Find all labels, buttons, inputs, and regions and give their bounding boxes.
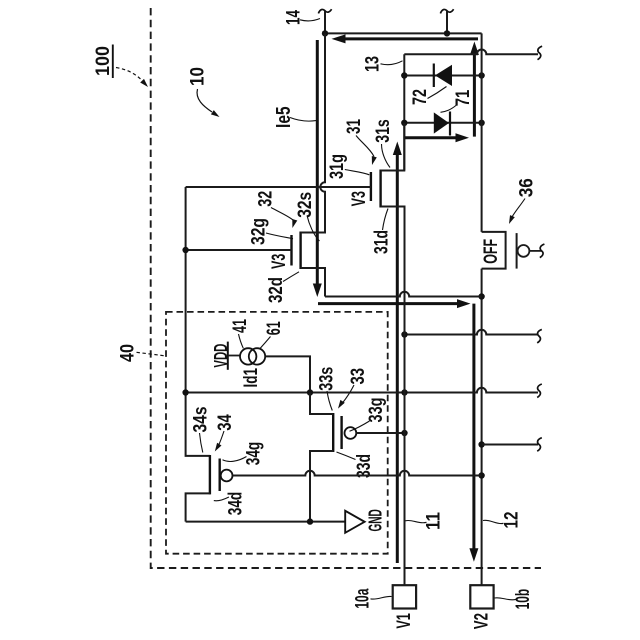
- node dot at (447,33.4): [444, 30, 450, 36]
- svg-text:31: 31: [343, 119, 365, 134]
- label 31d: [371, 209, 393, 255]
- svg-text:71: 71: [452, 90, 474, 107]
- node dot (404.5,433): [401, 430, 407, 436]
- channel bar 34: [209, 455, 211, 494]
- svg-text:Id1: Id1: [241, 368, 262, 388]
- label 34d: [214, 492, 247, 516]
- wire 32 gate lead: [186, 249, 292, 251]
- node dot (404.3,122.8): [401, 120, 407, 126]
- wire from drain 32 to rail 12 (hops line 11): [325, 292, 482, 297]
- wire stub up to break at x=447: [446, 11, 448, 33]
- label 11: [406, 512, 445, 530]
- svg-text:34d: 34d: [225, 492, 247, 516]
- svg-text:31s: 31s: [372, 119, 394, 143]
- svg-text:V3: V3: [268, 254, 290, 269]
- gate lead 34 to rail 12 (hops 33 drain wire and line 11): [233, 471, 482, 476]
- wire 54 from diode rail top to break (hops rail 12): [404, 50, 538, 55]
- bold current arrow Ie5 bottom segment (rightwards): [318, 299, 471, 308]
- gate bar 34: [218, 459, 220, 492]
- break symbol right of wire 334.5: [537, 329, 542, 343]
- drain lead 31 (into line 11, hops wire 296.5): [381, 207, 405, 297]
- node dot (310,392.5): [307, 389, 313, 395]
- node dot (481.6,444.5): [478, 441, 484, 447]
- svg-text:34g: 34g: [243, 442, 265, 466]
- svg-text:32: 32: [255, 191, 277, 207]
- switch 36 lead: [529, 250, 541, 252]
- drain lead 34: [186, 493, 210, 521]
- break symbol right of wire 392.5: [537, 384, 542, 398]
- svg-text:32g: 32g: [248, 218, 270, 245]
- bold current arrow Ie5 left segment (downwards): [313, 40, 322, 297]
- svg-text:31d: 31d: [371, 230, 393, 254]
- terminal box V1 (10a): [393, 585, 416, 628]
- svg-text:14: 14: [283, 10, 305, 25]
- bold current arrow Ie5 top segment (leftwards): [332, 34, 479, 43]
- channel bar 32: [299, 232, 301, 270]
- diode 72 (pointing left): [434, 64, 452, 88]
- wire stub up to break at x=325: [324, 11, 326, 33]
- break symbol right of wire 444.5: [537, 438, 542, 452]
- svg-text:33: 33: [347, 368, 369, 385]
- label 32g: [248, 218, 294, 245]
- label 31: [343, 119, 377, 165]
- label 41: [229, 319, 251, 348]
- gate lead 33 to line 11: [356, 432, 404, 434]
- switch 36 circle: [518, 245, 530, 257]
- svg-text:10a: 10a: [352, 589, 374, 609]
- node dot (481.6,296.5): [478, 293, 484, 299]
- bold current arrow middle segment under diodes (rightwards): [405, 133, 470, 142]
- node dot (481.6,475.5): [478, 472, 484, 478]
- drain lead 33: [310, 451, 333, 522]
- svg-text:10: 10: [187, 67, 209, 86]
- diode rail left (node 13): [403, 54, 405, 170]
- transistor 32: [292, 33, 326, 296]
- label 12: [483, 511, 523, 528]
- label 32s: [294, 192, 320, 241]
- ground wire row: [186, 521, 346, 523]
- svg-text:100: 100: [92, 46, 114, 76]
- node dot (481.6,122.8): [478, 120, 484, 126]
- node dot (185.6,250): [182, 247, 188, 253]
- wire diode 71 row: [404, 122, 481, 124]
- svg-text:13: 13: [362, 56, 384, 72]
- svg-text:40: 40: [116, 344, 138, 362]
- node dot (185.6,392.5): [182, 389, 188, 395]
- bold current arrow through transistor 31 (upwards): [393, 142, 402, 564]
- gate wire of 31 from left box: [186, 186, 371, 188]
- channel bar 33: [332, 413, 334, 452]
- label 36: [509, 178, 537, 224]
- label 10a: [352, 589, 392, 609]
- label 34s: [190, 406, 212, 452]
- gate bar 32: [290, 235, 292, 266]
- wire 334.5 from line 11 to break (hops rail 12): [405, 330, 539, 335]
- wire VDD row (node of 33s etc, to break right): [186, 388, 538, 393]
- VDD supply symbol: [211, 342, 240, 370]
- node dot at (325,33.4): [322, 30, 328, 36]
- label 10: [187, 67, 220, 117]
- label 61: [260, 321, 285, 348]
- svg-text:OFF: OFF: [481, 239, 502, 264]
- label 10b: [495, 589, 534, 610]
- svg-text:34s: 34s: [190, 406, 212, 432]
- svg-text:36: 36: [515, 178, 537, 197]
- drain lead 32 (down then right to rail 12): [301, 268, 325, 297]
- left bias wire (node of 31g/32g/34s) top corner: [186, 187, 210, 456]
- svg-text:61: 61: [263, 321, 285, 335]
- label 33g: [350, 398, 387, 432]
- break symbol top right: [440, 9, 453, 13]
- break symbol top left: [318, 9, 331, 13]
- label 31g: [326, 154, 369, 179]
- gate circle 33: [345, 427, 357, 439]
- source lead 32 (up to node 14 wire, hops gate wire of 31): [301, 33, 325, 232]
- diode 71 (pointing right): [434, 112, 450, 136]
- dashed boundary 100 (outer border): [151, 8, 541, 568]
- label 72: [409, 87, 447, 106]
- node dot (310,521.6): [307, 518, 313, 524]
- transistor 33 (p-type, gate circle): [310, 393, 405, 522]
- transistor 31: [371, 123, 405, 297]
- svg-text:V1: V1: [393, 613, 415, 629]
- label 33d: [337, 452, 376, 478]
- gate bar 33: [340, 416, 342, 449]
- label 32d: [265, 272, 299, 303]
- rail 12 top section (from top wire corner down to OFF box): [481, 33, 483, 232]
- svg-text:72: 72: [409, 89, 431, 105]
- bold current arrow into V2 (downwards): [469, 304, 478, 562]
- break symbol right of wire 54: [538, 46, 543, 60]
- svg-text:34: 34: [214, 414, 236, 431]
- svg-text:31g: 31g: [326, 154, 348, 179]
- channel bar 31: [379, 170, 381, 208]
- svg-text:11: 11: [423, 512, 445, 530]
- svg-text:32s: 32s: [294, 192, 316, 218]
- label 13: [362, 56, 403, 72]
- source lead 31: [381, 123, 405, 171]
- svg-text:33s: 33s: [316, 367, 338, 391]
- node dot (404.5,392.5): [401, 389, 407, 395]
- node dot (481.6,75.5): [478, 72, 484, 78]
- OFF box of switch 36: [481, 232, 506, 269]
- rail 12 lower section (below OFF box): [481, 269, 483, 586]
- node dot (404.3,75.5): [401, 72, 407, 78]
- label 33s: [316, 367, 338, 411]
- bold current arrow Ie5 right segment (upwards): [470, 42, 479, 137]
- wire diode 72 row: [404, 75, 481, 77]
- break symbol at switch: [540, 244, 545, 258]
- svg-text:12: 12: [501, 511, 523, 528]
- transistor 34 (p-type, gate circle): [186, 455, 482, 522]
- wire 444.5 from rail 12 to break: [482, 444, 538, 446]
- svg-text:GND: GND: [365, 509, 385, 531]
- label 34: [214, 414, 236, 451]
- dashed box 40: [166, 312, 388, 554]
- label 33: [338, 368, 369, 409]
- label 34g: [223, 442, 265, 466]
- svg-text:V2: V2: [471, 613, 493, 629]
- label 14: [283, 10, 321, 25]
- svg-text:Ie5: Ie5: [273, 106, 295, 128]
- wire from current source to node (310,392.5): [265, 356, 310, 392]
- label 32: [255, 191, 298, 228]
- source lead 33: [310, 393, 333, 415]
- label 31s: [372, 119, 394, 167]
- node dot (404.5,334.5): [401, 331, 407, 337]
- current source 41/61 (two circles): [240, 348, 265, 364]
- GND symbol (hollow triangle): [345, 509, 385, 533]
- gate circle 34: [221, 470, 233, 482]
- svg-text:V3: V3: [348, 191, 370, 206]
- label 100: [92, 45, 148, 88]
- gate bar 31: [370, 172, 372, 201]
- line 11 lower section to V1: [404, 297, 406, 586]
- switch 36 contact bar: [516, 233, 518, 269]
- label 71: [441, 90, 475, 113]
- label 40: [116, 344, 164, 362]
- svg-text:33d: 33d: [353, 454, 375, 478]
- terminal box V2 (10b): [470, 585, 493, 629]
- svg-text:41: 41: [229, 319, 251, 333]
- label Ie5: [273, 106, 316, 128]
- svg-text:33g: 33g: [365, 398, 387, 423]
- wire top horizontal (14 net): [325, 32, 482, 34]
